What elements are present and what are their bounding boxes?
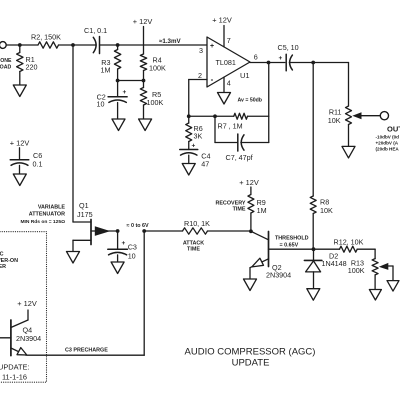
svg-text:PER: PER bbox=[0, 264, 6, 270]
label C2 10 bbox=[97, 92, 106, 108]
svg-text:100K: 100K bbox=[149, 63, 166, 72]
svg-text:MIN Rds on = 125Ω: MIN Rds on = 125Ω bbox=[20, 219, 65, 225]
ground under Q2 bbox=[244, 279, 257, 291]
label pin 4 bbox=[227, 79, 231, 88]
svg-text:≈1.3mV: ≈1.3mV bbox=[159, 38, 181, 45]
label automatic power-on (cut at edge) bbox=[0, 252, 18, 271]
svg-text:1M: 1M bbox=[101, 66, 111, 75]
label C4 plus bbox=[192, 143, 196, 150]
label R13 100K bbox=[348, 259, 365, 276]
label R6 3K bbox=[194, 124, 203, 141]
wire pin 2 to feedback node bbox=[189, 80, 207, 117]
svg-text:Q1: Q1 bbox=[79, 201, 89, 210]
wire node B down to Q1 drain bbox=[72, 45, 74, 222]
svg-text:TIME: TIME bbox=[233, 206, 246, 212]
resistor R3 bbox=[114, 45, 120, 81]
label Q2 2N3904 bbox=[266, 263, 291, 280]
capacitor C2 bbox=[108, 81, 127, 120]
capacitor C7 branch wire left bbox=[215, 116, 238, 142]
svg-text:+ 12V: + 12V bbox=[17, 299, 37, 308]
capacitor C6 bbox=[10, 148, 29, 174]
svg-text:6: 6 bbox=[254, 53, 258, 62]
R13 wiper arrow bbox=[379, 263, 393, 281]
label C7 47pf bbox=[226, 153, 253, 162]
label pin 3 bbox=[199, 46, 203, 55]
wire C3 precharge bbox=[27, 231, 144, 355]
ground under pin 4 bbox=[218, 93, 231, 105]
svg-text:J175: J175 bbox=[77, 210, 93, 219]
svg-text:3: 3 bbox=[199, 46, 203, 55]
node L (precharge tap) bbox=[142, 229, 146, 233]
label update date (cut at edge) bbox=[0, 363, 29, 382]
wire node H to R7 bbox=[215, 115, 234, 117]
svg-text:220: 220 bbox=[26, 63, 38, 72]
svg-text:0.1: 0.1 bbox=[33, 160, 43, 169]
transistor Q2 2N3904 bbox=[250, 231, 269, 279]
node A (input junction) bbox=[18, 43, 22, 47]
ground under R5 bbox=[139, 119, 152, 131]
wire R10 to node J bbox=[208, 230, 251, 232]
label D2 1N4148 bbox=[322, 251, 347, 268]
node E (R4/R5 junction) bbox=[142, 79, 146, 83]
wire node K to R10 bbox=[144, 230, 182, 232]
svg-text:10: 10 bbox=[97, 100, 105, 109]
svg-text:UPDATE:: UPDATE: bbox=[0, 363, 29, 372]
label pin 7 bbox=[227, 36, 231, 45]
resistor R4 bbox=[140, 54, 146, 81]
svg-text:+ 12V: + 12V bbox=[10, 139, 30, 148]
svg-text:2N3904: 2N3904 bbox=[16, 334, 41, 343]
svg-text:≈ 0 to 6V: ≈ 0 to 6V bbox=[127, 223, 150, 229]
resistor R1 bbox=[17, 45, 23, 85]
svg-text:2N3904: 2N3904 bbox=[266, 271, 291, 280]
svg-text:+: + bbox=[210, 43, 214, 50]
ground under C6 bbox=[13, 174, 26, 186]
power +12V (U1 pin 7) bbox=[212, 16, 232, 25]
power +12V (C6) bbox=[10, 139, 30, 148]
wire down to R11 bbox=[348, 63, 350, 107]
svg-text:11-1-16: 11-1-16 bbox=[2, 373, 27, 382]
label pin 2 bbox=[198, 71, 202, 80]
R11 wiper arrow bbox=[352, 112, 380, 119]
label Q1 J175 bbox=[77, 201, 93, 219]
power +12V (R9) bbox=[239, 178, 259, 187]
svg-text:WER-ON: WER-ON bbox=[0, 258, 18, 264]
label OUTPUT bbox=[387, 125, 400, 134]
svg-text:100K: 100K bbox=[147, 98, 164, 107]
wire node M to R12 bbox=[314, 248, 340, 250]
label R10 1K bbox=[184, 219, 210, 228]
node C (after C1) bbox=[116, 43, 120, 47]
svg-text:10: 10 bbox=[128, 251, 136, 260]
wire R7 to node F bbox=[248, 63, 269, 117]
svg-text:2: 2 bbox=[198, 71, 202, 80]
transistor Q4 2N3904 bbox=[0, 320, 28, 356]
pin 4 ground wire bbox=[223, 77, 225, 92]
label C6 0.1 bbox=[33, 151, 43, 169]
node M (threshold) bbox=[312, 247, 316, 251]
transistor Q1 J175 bbox=[73, 220, 118, 245]
label title UPDATE bbox=[232, 357, 270, 368]
node G (feedback left) bbox=[187, 114, 191, 118]
ground under R1 bbox=[13, 85, 26, 97]
label R12 10K bbox=[334, 238, 364, 247]
svg-text:UPDATE: UPDATE bbox=[232, 357, 270, 368]
label recovery time bbox=[215, 200, 245, 212]
label U1 bbox=[240, 71, 250, 80]
svg-text:THRESHOLD: THRESHOLD bbox=[275, 235, 309, 241]
wire input to R2 bbox=[6, 44, 38, 46]
ground under C2 bbox=[112, 119, 125, 131]
svg-text:(20db HEA: (20db HEA bbox=[376, 147, 400, 152]
wire node I to R8 bbox=[312, 63, 314, 197]
label threshold bbox=[275, 235, 309, 248]
capacitor C4 bbox=[180, 150, 198, 164]
label R8 10K bbox=[320, 198, 333, 216]
label R4 100K bbox=[149, 56, 166, 73]
svg-text:R11: R11 bbox=[329, 107, 342, 116]
svg-text:+: + bbox=[123, 89, 127, 96]
resistor R6 bbox=[186, 116, 192, 149]
svg-text:VARIABLE: VARIABLE bbox=[38, 204, 66, 210]
svg-text:+ 12V: + 12V bbox=[133, 17, 153, 26]
wire C5 to R11 bbox=[289, 62, 348, 64]
svg-text:U1: U1 bbox=[240, 71, 250, 80]
label R2 150K bbox=[31, 33, 61, 42]
label output levels bbox=[376, 135, 400, 152]
label attack time bbox=[183, 240, 204, 252]
node I (after C5) bbox=[311, 61, 315, 65]
ground under C4 bbox=[182, 164, 195, 176]
svg-text:ATTENUATOR: ATTENUATOR bbox=[29, 212, 65, 218]
diode D2 bbox=[304, 249, 322, 289]
resistor R9 bbox=[248, 195, 254, 232]
ground under R13 wiper bbox=[387, 281, 399, 292]
label R11 10K bbox=[328, 107, 342, 125]
svg-text:47: 47 bbox=[201, 159, 209, 168]
pin 7 +12V wire bbox=[223, 26, 225, 47]
svg-text:+ 12V: + 12V bbox=[239, 178, 259, 187]
potentiometer R11 bbox=[346, 106, 352, 146]
input connector jack bbox=[0, 42, 6, 49]
resistor R5 bbox=[140, 81, 146, 120]
svg-text:LOAD: LOAD bbox=[0, 64, 11, 70]
svg-text:TIME: TIME bbox=[187, 246, 200, 252]
label C1 0.1 bbox=[84, 26, 107, 35]
svg-text:TL081: TL081 bbox=[216, 58, 236, 67]
svg-text:HONE: HONE bbox=[0, 58, 12, 64]
wire pin 6 to C5 bbox=[250, 62, 285, 64]
dashed box power-on circuit bbox=[0, 232, 47, 383]
ground under R11 bbox=[342, 146, 355, 158]
svg-text:10K: 10K bbox=[328, 116, 341, 125]
wire node D to node E bbox=[118, 80, 144, 82]
svg-text:Av = 50db: Av = 50db bbox=[238, 98, 262, 104]
svg-text:+ 12V: + 12V bbox=[212, 16, 232, 25]
label R7 1M bbox=[218, 122, 243, 131]
resistor R7 bbox=[234, 113, 248, 119]
power +12V (R4) bbox=[133, 17, 153, 26]
node H (R7/C7 left) bbox=[213, 114, 217, 118]
label signal level 1.3mV bbox=[159, 38, 181, 45]
label microphone load (cut at edge) bbox=[0, 58, 12, 70]
label R9 1M bbox=[257, 198, 267, 215]
svg-text:3K: 3K bbox=[194, 132, 203, 141]
svg-text:C3: C3 bbox=[128, 243, 137, 252]
svg-text:+: + bbox=[192, 143, 196, 150]
resistor R10 bbox=[183, 228, 208, 234]
label R5 100K bbox=[147, 90, 164, 107]
ground under Q1 bbox=[67, 252, 80, 264]
svg-text:R10, 1K: R10, 1K bbox=[184, 219, 210, 228]
resistor R8 bbox=[310, 196, 316, 249]
wire R12 to R13 bbox=[357, 249, 375, 258]
svg-text:+: + bbox=[122, 240, 126, 247]
label C5 10 bbox=[278, 43, 299, 52]
potentiometer R13 bbox=[372, 259, 378, 290]
wire Q2 base to threshold node bbox=[269, 248, 314, 250]
svg-text:AUDIO COMPRESSOR (AGC): AUDIO COMPRESSOR (AGC) bbox=[185, 346, 316, 357]
power +12V (Q4) bbox=[17, 299, 37, 308]
node B (after R2) bbox=[71, 43, 75, 47]
svg-text:4: 4 bbox=[227, 79, 231, 88]
svg-text:C3 PRECHARGE: C3 PRECHARGE bbox=[65, 347, 108, 353]
svg-text:100K: 100K bbox=[348, 266, 365, 275]
label pin 6 bbox=[254, 53, 258, 62]
label C3 precharge bbox=[65, 347, 108, 353]
ground under C3 bbox=[111, 262, 124, 274]
svg-text:7: 7 bbox=[227, 36, 231, 45]
label 0 to 6V bbox=[127, 223, 150, 229]
label variable attenuator bbox=[20, 204, 65, 225]
svg-text:C1, 0.1: C1, 0.1 bbox=[84, 26, 107, 35]
wire +12V to R9 bbox=[250, 187, 252, 195]
node D (R3/C2 junction) bbox=[116, 79, 120, 83]
label gain Av 50db bbox=[238, 98, 262, 104]
svg-text:= 0.65V: = 0.65V bbox=[280, 243, 299, 249]
ground under D2 bbox=[307, 289, 320, 301]
label Q4 2N3904 bbox=[16, 326, 41, 343]
svg-text:C7, 47pf: C7, 47pf bbox=[226, 153, 253, 162]
capacitor C3 bbox=[108, 231, 128, 262]
label C4 47 bbox=[201, 152, 210, 169]
wire Q1 source to ground bbox=[72, 240, 74, 251]
output connector jack bbox=[380, 112, 388, 120]
svg-text:R7 , 1M: R7 , 1M bbox=[218, 122, 243, 131]
svg-text:OUTPUT: OUTPUT bbox=[387, 125, 400, 134]
label C2 plus bbox=[123, 89, 127, 96]
ground under R13 bbox=[369, 290, 381, 301]
node K (Q1 gate / C3) bbox=[116, 229, 120, 233]
svg-text:1N4148: 1N4148 bbox=[322, 259, 347, 268]
svg-text:+20dbV (A: +20dbV (A bbox=[376, 141, 399, 146]
resistor R12 bbox=[340, 246, 358, 252]
label C3 10 bbox=[128, 243, 137, 261]
capacitor C5 bbox=[286, 54, 292, 71]
label R3 1M bbox=[101, 58, 111, 75]
wire R2 to node B bbox=[59, 44, 97, 46]
capacitor C7 bbox=[238, 134, 244, 151]
svg-text:R12, 10K: R12, 10K bbox=[334, 238, 364, 247]
svg-text:-10dbV (0d: -10dbV (0d bbox=[376, 135, 400, 140]
wire node G to node H bbox=[189, 115, 215, 117]
wire +12V to Q4 collector bbox=[27, 310, 29, 320]
svg-text:R2, 150K: R2, 150K bbox=[31, 33, 61, 42]
op-amp U1 TL081 bbox=[207, 37, 250, 87]
svg-text:1M: 1M bbox=[257, 206, 267, 215]
svg-text:C5, 10: C5, 10 bbox=[278, 43, 299, 52]
svg-text:10K: 10K bbox=[320, 206, 333, 215]
capacitor C7 branch wire right bbox=[241, 116, 269, 142]
label title AUDIO COMPRESSOR (AGC) bbox=[185, 346, 316, 357]
node F (op-amp output) bbox=[267, 61, 271, 65]
label C5 plus bbox=[279, 55, 283, 62]
svg-text:-: - bbox=[211, 75, 214, 84]
capacitor C1 bbox=[93, 37, 99, 54]
resistor R2 bbox=[38, 42, 59, 48]
wire +12V to R4 bbox=[143, 27, 145, 55]
svg-text:+: + bbox=[279, 55, 283, 62]
svg-text:TIC: TIC bbox=[0, 252, 4, 258]
node J (R9/R10/Q2) bbox=[249, 229, 253, 233]
label R1 220 bbox=[26, 55, 38, 72]
label C3 plus bbox=[122, 240, 126, 247]
wire C1 to op-amp pin 3 bbox=[100, 44, 208, 46]
